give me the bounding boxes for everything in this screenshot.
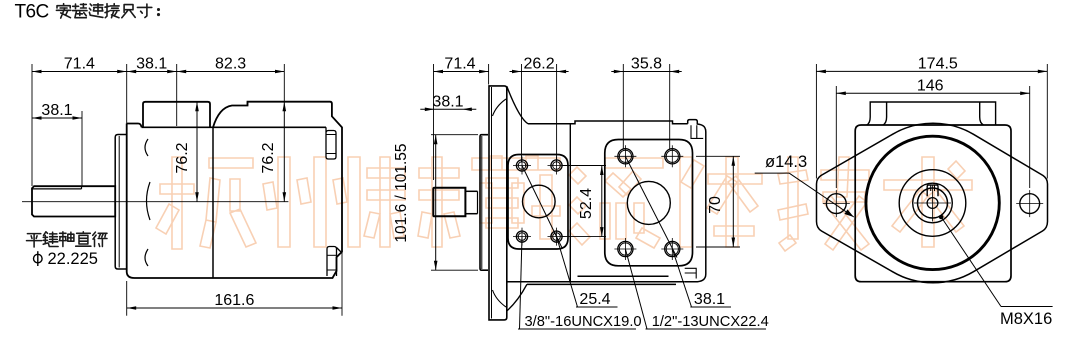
svg-text:1/2"-13UNCX22.4: 1/2"-13UNCX22.4 [652, 314, 769, 330]
view2 flange2 bolt hole 2 [665, 149, 680, 164]
view3 flange outline [817, 123, 1048, 282]
svg-text:101.6 / 101.55: 101.6 / 101.55 [393, 143, 410, 242]
view3 pilot circle [866, 136, 999, 269]
view2 dim 101.6 ext [431, 134, 478, 136]
svg-text:35.8: 35.8 [631, 56, 662, 73]
view1 dim 71.4 ext lines [31, 64, 33, 186]
view2 flange1 port circle [523, 185, 556, 218]
view3 dim 174.5 ext [815, 64, 817, 179]
view3 hub inner circle [913, 183, 953, 223]
view2 flange2 bolt hole 3 [618, 241, 633, 256]
view2 flange1 bolt hole 4 [551, 231, 562, 242]
svg-text:M8X16: M8X16 [1000, 310, 1052, 328]
view2 dim 35.8 [611, 71, 681, 73]
title text T6C installation dimensions [15, 2, 161, 23]
view2 top fillet [507, 86, 528, 124]
view1 block B2 step [247, 102, 249, 106]
svg-text:38.1: 38.1 [694, 291, 725, 308]
view2 flange1 pad [508, 155, 568, 250]
svg-text:T6C: T6C [15, 2, 49, 23]
svg-text:3/8"-16UNCX19.0: 3/8"-16UNCX19.0 [525, 314, 642, 330]
svg-text:38.1: 38.1 [432, 93, 463, 110]
view2 leader 25.4 [557, 237, 578, 307]
view3 hub outer circle [899, 170, 966, 237]
svg-text:174.5: 174.5 [918, 55, 958, 72]
svg-text:76.2: 76.2 [174, 142, 191, 173]
svg-text:26.2: 26.2 [523, 56, 554, 73]
view3 leader M8X16 [939, 215, 944, 220]
svg-text:71.4: 71.4 [444, 56, 475, 73]
view3 keyway [927, 185, 938, 196]
svg-text:76.2: 76.2 [260, 142, 277, 173]
view2 flange plate [489, 86, 507, 320]
view3 M8 tapped hole [927, 198, 938, 209]
view2 shaft end [433, 188, 465, 217]
view2 body left edge [569, 124, 571, 282]
view2 pilot spigot [480, 135, 488, 271]
view1 dim 161.6 [127, 307, 342, 309]
view2 dim 101.6/101.55 [435, 135, 437, 271]
svg-text:25.4: 25.4 [579, 291, 610, 308]
view1 top block B1 [143, 102, 210, 128]
svg-text:70: 70 [707, 196, 724, 214]
view2 leader 3/8 thread [520, 237, 523, 329]
view2 dim 70 ext [696, 155, 740, 157]
view3 body [855, 125, 1011, 282]
view1 dim 38.1 top [127, 71, 177, 73]
view1 body top edge [142, 126, 327, 128]
view1 flange plate [115, 135, 127, 270]
view1 centerline [22, 201, 288, 203]
view1 dim 161.6 ext [341, 252, 343, 316]
view1 dim 38.1 key [32, 117, 82, 119]
view1 label phi22.225 [34, 254, 43, 263]
view2 flange plate arcs [493, 99, 507, 116]
view2 flange1 bolt hole 3 [516, 231, 527, 242]
view2 dim 52.4 [601, 166, 603, 237]
view3 right ear hole [1020, 194, 1040, 214]
view1 label key shaft dia [27, 232, 108, 247]
view3 dim 146 [836, 92, 1029, 94]
view3 dim 174.5 [816, 70, 1047, 72]
view2 flange2 pad [605, 140, 693, 266]
view2 flange2 port circle [627, 181, 670, 224]
view3 shaft circle [918, 188, 948, 218]
view2 bottom fillet [507, 284, 527, 311]
view2 shaft neck [465, 190, 477, 192]
view2 flange1 diagonal [522, 166, 562, 248]
view1 dim 71.4 [32, 71, 127, 73]
view2 dim 38.1 shaft [420, 108, 476, 110]
svg-text:82.3: 82.3 [215, 56, 246, 73]
view2 flange2 bolt hole 1 [618, 149, 633, 164]
view2 leader 1/2 thread [625, 249, 647, 329]
svg-text:ø14.3: ø14.3 [765, 153, 807, 171]
view3 left ear hole [826, 194, 846, 214]
view2 dim 26.2 ext [521, 64, 523, 163]
view2 dim 71.4 ext [433, 64, 435, 180]
view2 flange1 bolt hole 1 [516, 160, 527, 171]
view2 dim 70 [732, 156, 734, 247]
view2 body right edge [685, 120, 706, 282]
svg-text:38.1: 38.1 [41, 102, 72, 119]
view2 dim 26.2 [510, 71, 569, 73]
view2 flange1 bolt hole 2 [551, 160, 562, 171]
view1 dim 38.1 key ext [81, 111, 83, 186]
view2 body outline [507, 121, 688, 284]
svg-text:161.6: 161.6 [214, 292, 254, 309]
view1 dim 76.2 second [283, 102, 285, 202]
view1 body outline [127, 102, 342, 278]
view2 top-right notch [691, 125, 703, 138]
svg-text:52.4: 52.4 [578, 188, 595, 219]
svg-text:22.225: 22.225 [48, 250, 98, 268]
svg-text:71.4: 71.4 [64, 56, 95, 73]
view3 port boss [867, 102, 996, 125]
view2 dim 71.4 [434, 71, 489, 73]
view2 dim 52.4 ext [562, 165, 606, 167]
view2 flange2 bolt hole 4 [665, 241, 680, 256]
svg-text:146: 146 [917, 77, 944, 94]
view2 leader 38.1 [672, 249, 691, 307]
watermark text [156, 156, 972, 251]
view3 dim 146 ext [835, 86, 837, 188]
view2 dim 35.8 ext [622, 64, 624, 149]
view1 shaft [32, 186, 115, 216]
svg-text:38.1: 38.1 [136, 56, 167, 73]
view1 top clip [326, 127, 336, 159]
view1 flange arcs [145, 139, 148, 156]
view1 dim 82.3 [177, 71, 285, 73]
view2 bottom-right notch [685, 268, 697, 278]
view1 bottom clip [327, 247, 337, 277]
view2 flange2 diagonal [625, 156, 677, 257]
view1 dim 76.2 first [196, 102, 198, 202]
